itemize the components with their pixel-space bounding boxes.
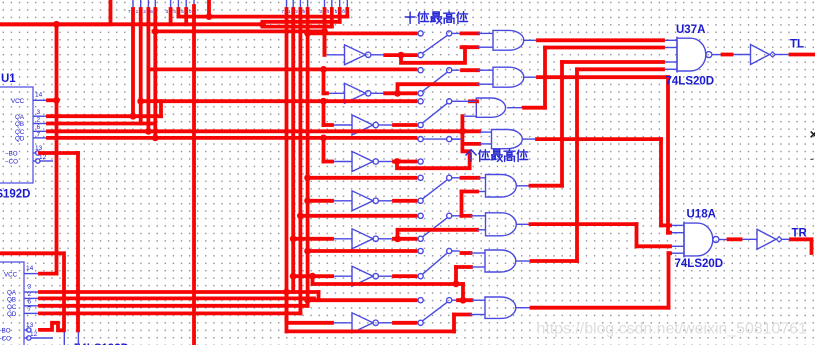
svg-text:3: 3	[37, 109, 41, 116]
AND gate row 5	[486, 175, 517, 198]
svg-text:7: 7	[128, 9, 131, 15]
label Chinese: ones highest bit	[466, 150, 471, 155]
AND gate row 7	[485, 250, 516, 272]
svg-text:-: -	[810, 154, 813, 165]
inverter row 7	[352, 266, 373, 286]
wire top bus 5	[154, 29, 325, 33]
svg-text:0: 0	[342, 9, 345, 15]
AND gate row 4	[492, 130, 523, 149]
wire gate input blue stubs	[478, 32, 493, 34]
wire U1 QC long (gate4 in1)	[48, 129, 479, 133]
svg-text:~BO: ~BO	[5, 151, 18, 158]
svg-text:5: 5	[335, 9, 338, 15]
wire gate3 in2 riser + gate4 in2 zigzag	[397, 116, 470, 168]
svg-text:4: 4	[173, 9, 176, 15]
wire U2 QC	[40, 304, 308, 308]
svg-text:6: 6	[28, 298, 32, 305]
wire U1 QD long (sw4 top feed)	[48, 136, 416, 140]
wire stub risers top-left	[207, 0, 211, 17]
svg-text:74LS192D: 74LS192D	[0, 189, 30, 201]
svg-text:2: 2	[295, 9, 298, 15]
svg-text:TR: TR	[792, 228, 808, 240]
counter U2 74LS192D body	[0, 262, 24, 345]
wire gate1 output to U37A in1	[538, 38, 663, 42]
inverter row 3	[352, 115, 373, 135]
wire vcc rail down to U1/U2	[55, 24, 59, 273]
svg-text:https://blog.csdn.net/weixin_5: https://blog.csdn.net/weixin_50810761	[537, 321, 808, 338]
wire top bus 2	[263, 20, 340, 24]
wire gate8 output to U18A in4	[532, 306, 669, 310]
AND gate row 6	[486, 213, 517, 236]
wire gate6 in2 jog	[398, 230, 478, 239]
wire row8 input corner	[285, 292, 289, 331]
svg-text:QD: QD	[15, 136, 25, 143]
wire sw7 top feed	[308, 249, 416, 253]
wire U37A output segment	[723, 53, 732, 57]
wire inv7 input	[293, 274, 332, 278]
NAND gate U18A 74LS20D 4-input	[684, 223, 713, 256]
wire U1 QB	[48, 122, 155, 126]
svg-text:1: 1	[136, 9, 139, 15]
svg-text:QB: QB	[7, 296, 16, 303]
wire group2 pin drops (bus verticals)	[285, 9, 289, 323]
wire gate7 output riser to U37A in4	[532, 259, 578, 263]
wire sw3 top feed (QA net)	[141, 99, 416, 103]
svg-text:TL: TL	[790, 39, 804, 51]
wire inv8 input	[287, 321, 333, 325]
svg-text:2: 2	[143, 9, 146, 15]
svg-text:QC: QC	[7, 304, 17, 311]
svg-text:3: 3	[319, 9, 322, 15]
switch row 6 (SPDT)	[416, 215, 419, 217]
wire U2 QA jog	[40, 290, 319, 294]
switch row 3 (SPDT)	[416, 100, 419, 102]
svg-text:~CO: ~CO	[5, 159, 18, 166]
svg-text:×: ×	[810, 126, 815, 142]
wire gate5 in2 h	[462, 190, 478, 194]
switch row 2 (SPDT)	[416, 69, 419, 71]
wire top bus 3	[0, 22, 263, 26]
svg-text:U37A: U37A	[676, 24, 705, 36]
svg-text:6: 6	[303, 9, 306, 15]
svg-text:14: 14	[35, 92, 43, 99]
wire gate8 in2 riser	[452, 315, 456, 332]
wire gate1 in2 path	[401, 47, 465, 63]
svg-text:7: 7	[28, 306, 32, 313]
NAND gate U37A 74LS20D 4-input	[677, 38, 706, 71]
switch row 7 (SPDT)	[416, 250, 419, 252]
counter U1 74LS192D body	[0, 87, 33, 183]
svg-text:U1: U1	[1, 73, 16, 85]
wire gate5 output riser to U37A in3	[531, 184, 563, 188]
wire sw8 top feed	[308, 298, 416, 302]
switch row 4 (SPDT)	[416, 138, 419, 140]
svg-text:~CO: ~CO	[0, 336, 11, 343]
svg-text:QD: QD	[7, 311, 17, 318]
wire sw2 top feed	[151, 68, 416, 72]
svg-text:14: 14	[26, 265, 34, 272]
wire sw6 top feed	[300, 214, 415, 218]
wire gate4 output to U18A in1	[537, 137, 661, 141]
wire gate3 output riser to U37A in2	[524, 106, 545, 110]
svg-text:3: 3	[28, 284, 32, 291]
wire inv6 input	[293, 237, 332, 241]
inverter row 4	[352, 152, 373, 172]
svg-text:1: 1	[288, 9, 291, 15]
wire inverter input taps	[323, 31, 327, 54]
AND gate row 2	[493, 67, 524, 87]
svg-text:~BO: ~BO	[0, 328, 11, 335]
svg-text:2: 2	[37, 117, 41, 124]
switch row 1 (SPDT)	[416, 32, 419, 34]
wire gate2 output to U18A in2	[538, 75, 668, 79]
svg-text:QA: QA	[15, 114, 25, 121]
wire U2 QB	[40, 296, 314, 300]
U1 pin stubs	[33, 99, 48, 101]
inverter row 6	[352, 229, 373, 249]
wire U1 ~BO down rail	[40, 151, 78, 155]
wire long rail from stub x=194	[192, 6, 196, 345]
buffer TR driver	[757, 229, 776, 249]
svg-text:7: 7	[281, 9, 284, 15]
switch row 8 (SPDT)	[416, 299, 419, 301]
inverter row 5	[352, 191, 373, 211]
svg-text:U18A: U18A	[687, 209, 716, 221]
buffer TL driver	[751, 45, 770, 65]
wire U2 ~BO zigzag	[0, 253, 64, 330]
top pin stubs group 2	[286, 0, 288, 9]
svg-text:5: 5	[181, 9, 184, 15]
bottom chip pin stubs	[63, 332, 65, 345]
svg-text:VCC: VCC	[4, 271, 18, 278]
wire gate5 in2 riser	[460, 192, 464, 216]
wire TR net	[791, 239, 812, 253]
switch row 5 (SPDT)	[416, 177, 419, 179]
inverter row 8	[352, 313, 373, 333]
wire group1 pin drops	[131, 9, 135, 116]
wire inverter outputs to switch bottoms	[385, 53, 415, 57]
svg-text:0: 0	[189, 9, 192, 15]
svg-text:74LS20D: 74LS20D	[675, 258, 724, 270]
inverter row 2	[345, 83, 366, 103]
svg-text:3: 3	[166, 9, 169, 15]
wire U1 QA riser	[48, 114, 161, 118]
wire gate7 in2 riser	[454, 267, 458, 284]
wire main top horizontal	[0, 0, 111, 24]
AND gate row 8	[485, 297, 516, 318]
wire TL net	[791, 53, 815, 57]
wire top bus 1	[178, 15, 347, 19]
svg-text:QB: QB	[15, 121, 24, 128]
wire W_b to gate8 in2	[287, 329, 455, 333]
svg-text:VCC: VCC	[11, 98, 25, 105]
inverter row 1	[345, 45, 366, 65]
svg-text:74LS20D: 74LS20D	[666, 76, 715, 88]
AND gate row 1	[493, 30, 524, 50]
wire row7 tap to sw8 route	[311, 276, 315, 284]
wire sw5 top feed	[308, 176, 416, 180]
wire inv5 input	[308, 199, 332, 203]
wire after-pole red segments	[462, 32, 479, 36]
AND gate row 3	[476, 98, 505, 117]
wire gate6 output to U18A in3	[531, 222, 637, 226]
wire sw1 top feed	[308, 32, 416, 36]
wire gate2 in2 jog	[398, 84, 478, 93]
svg-text:6: 6	[150, 9, 153, 15]
wire top bus 4	[263, 25, 332, 29]
svg-text:6: 6	[37, 124, 41, 131]
label Chinese: tens highest bit	[405, 16, 415, 18]
top pin stubs group 1	[132, 0, 134, 9]
wire U2 QD	[40, 311, 300, 315]
wire U18A output segment	[729, 237, 741, 241]
svg-text:4: 4	[327, 9, 330, 15]
U2 pin stubs	[24, 273, 40, 275]
